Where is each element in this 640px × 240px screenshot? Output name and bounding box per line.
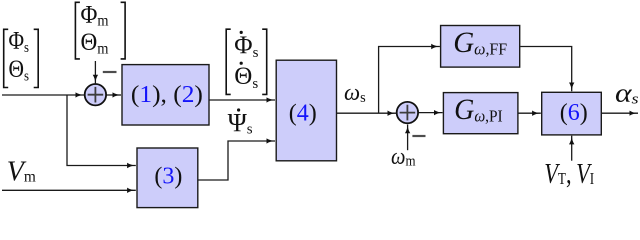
svg-text:Ψs: Ψs xyxy=(228,109,253,138)
svg-text:Θs: Θs xyxy=(9,56,30,85)
svg-text:Φm: Φm xyxy=(81,1,109,29)
svg-text:(1), (2): (1), (2) xyxy=(131,82,203,108)
svg-text:Θs: Θs xyxy=(234,63,258,92)
svg-text:(6): (6) xyxy=(560,100,588,126)
svg-text:αs: αs xyxy=(615,79,639,108)
svg-text:Φs: Φs xyxy=(9,27,30,56)
svg-text:ωs: ωs xyxy=(344,80,366,106)
svg-text:(4): (4) xyxy=(289,100,317,126)
svg-text:Φs: Φs xyxy=(234,32,258,61)
svg-text:ωm: ωm xyxy=(391,144,416,170)
svg-text:VT, VI: VT, VI xyxy=(544,159,594,190)
svg-text:Vm: Vm xyxy=(7,156,37,188)
svg-text:Θm: Θm xyxy=(81,29,109,57)
svg-text:(3): (3) xyxy=(154,164,182,190)
